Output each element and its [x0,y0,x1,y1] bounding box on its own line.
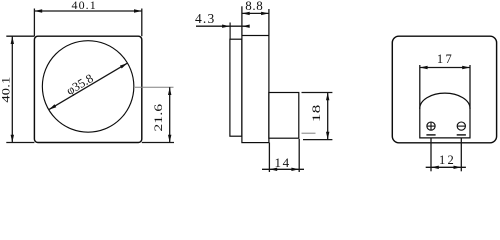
rear view: rounded square case back [392,36,496,143]
dim 17: line [420,67,470,69]
side view: case body [242,36,269,143]
rear view: terminal housing dome [420,93,470,138]
dim 8.8: line [242,12,269,14]
dim 18: extensions [302,92,333,94]
front view: round bezel circle [42,41,134,132]
dim 21.6: line [169,87,171,142]
svg-text:8.8: 8.8 [245,0,263,13]
dimension linework [6,6,470,172]
dim 40.1 left: line [11,36,13,142]
svg-text:18: 18 [311,104,324,122]
svg-text:17: 17 [437,52,454,66]
dim 8.8: extensions [241,6,243,35]
front view: square case flange [34,36,141,142]
svg-text:12: 12 [439,153,456,167]
svg-text:4.3: 4.3 [195,11,215,26]
40.1 left arrows [11,36,14,44]
arrowheads [11,9,470,171]
dim 12: extensions [430,138,432,172]
dim 40.1 top: line [34,10,141,12]
14 arrows [269,168,277,171]
dia 35.8 arrows [120,62,128,69]
dim 17: extensions [419,65,421,109]
svg-text:φ35.8: φ35.8 [64,71,96,98]
dim 40.1 left: extension lines [6,35,34,37]
21.6 arrows [168,87,171,95]
dim 12: line [426,166,466,168]
dim 4.3: front face extension up [229,23,231,40]
40.1 top arrows [34,9,42,12]
hidden stub line [302,132,316,134]
18 arrows [326,93,329,101]
dim 21.6: bottom extension [142,142,174,144]
12 arrows [431,166,439,169]
terminal plus [427,122,435,130]
terminal minus [457,122,465,130]
center line of circle (21.6 upper reference) [135,86,174,88]
svg-text:40.1: 40.1 [0,77,12,103]
terminal underline marks [426,134,466,136]
dim 4.3: line [196,25,248,27]
17 arrows [420,66,428,69]
side view: glass/bezel front strip [230,39,242,136]
svg-text:21.6: 21.6 [152,104,165,132]
dim 40.1 top: extension lines [33,9,35,37]
8.8 arrows [242,12,250,15]
side view: rear terminal block [269,93,299,139]
dia 35.8 diameter line [49,63,128,110]
4.3 arrows (outside) [222,25,230,28]
svg-text:14: 14 [274,155,290,170]
dim 14: extensions [268,143,270,172]
dim 14: line [262,168,304,170]
dimension texts [0,0,456,170]
svg-text:40.1: 40.1 [71,0,96,12]
dim 18: line [327,93,329,140]
